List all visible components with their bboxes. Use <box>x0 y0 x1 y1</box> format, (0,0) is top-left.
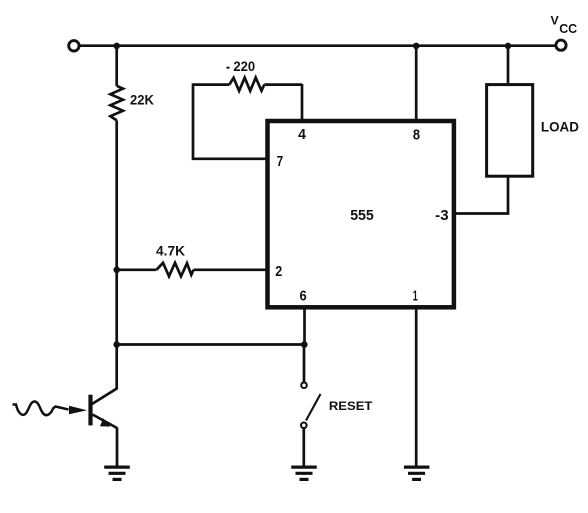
node junction top rail / 22K branch <box>113 43 120 50</box>
svg-text:220: 220 <box>233 59 255 74</box>
svg-text:1: 1 <box>413 289 418 305</box>
wire switch to ground <box>302 428 305 465</box>
switch S1 bottom contact <box>301 423 307 429</box>
svg-text:V: V <box>551 13 559 27</box>
wire pin 1 to ground <box>415 306 418 466</box>
svg-text:8: 8 <box>413 127 420 143</box>
wire bottom rail (pin 6 to transistor collector) <box>117 343 305 346</box>
wire 22K branch from top rail <box>115 46 118 86</box>
svg-text:6: 6 <box>300 289 307 305</box>
wire pin 6 stub <box>303 306 306 345</box>
wire load branch down <box>507 46 510 85</box>
wire pin 4 drop <box>301 84 304 122</box>
node junction 4.7K branch <box>113 267 120 274</box>
resistor 220 (horizontal zigzag) <box>229 78 264 91</box>
node junction bottom rail right / pin 6 <box>301 341 308 348</box>
wire emitter to ground <box>116 428 119 466</box>
wire from 22K down to 4.7K node <box>115 120 118 270</box>
wire top supply rail <box>79 44 555 47</box>
svg-text:2: 2 <box>275 264 282 280</box>
resistor 22K (vertical zigzag) <box>110 86 123 121</box>
svg-text:4: 4 <box>298 127 306 143</box>
svg-text:7: 7 <box>277 154 284 170</box>
resistor LOAD (box) <box>487 85 533 177</box>
wire collector drop <box>115 345 118 390</box>
input terminal (open circle, top-left) <box>69 41 79 51</box>
svg-text:CC: CC <box>559 21 578 36</box>
IC U1 555 box <box>268 121 454 307</box>
transistor Q1 collector lead <box>92 388 117 404</box>
svg-text:RESET: RESET <box>329 401 373 413</box>
switch S1 top contact <box>301 382 307 388</box>
ground (pin 1) <box>404 467 430 479</box>
wire 220 loop right segment <box>264 83 302 86</box>
transistor Q1 emitter lead with arrow <box>93 415 118 429</box>
svg-text:4.7K: 4.7K <box>156 243 185 258</box>
svg-text:22K: 22K <box>130 92 154 107</box>
transistor Q1 base bar <box>88 395 92 426</box>
ground (reset switch) <box>291 467 317 479</box>
light input squiggle into base <box>13 402 69 416</box>
label Vcc <box>551 13 578 36</box>
svg-text:-3: -3 <box>435 207 448 224</box>
wire 4.7K left segment <box>117 268 157 271</box>
wire reset switch drop <box>303 345 306 383</box>
svg-text:555: 555 <box>350 207 374 224</box>
tick before 220 <box>227 67 230 69</box>
terminal Vcc (open circle, top-right) <box>556 40 566 50</box>
arrow into base <box>69 406 87 414</box>
wire pin 8 from top rail <box>415 46 418 122</box>
wire from 4.7K node down to bottom-rail node <box>115 270 118 345</box>
svg-text:LOAD: LOAD <box>541 119 579 134</box>
resistor 4.7K (horizontal zigzag) <box>157 263 194 277</box>
wire load bottom to pin 3 <box>454 176 509 213</box>
ground (transistor emitter) <box>104 467 130 479</box>
wire 220 loop left + down + to pin 7 <box>193 85 266 159</box>
node junction bottom rail left <box>113 341 120 348</box>
wire 4.7K to pin 2 <box>194 268 267 271</box>
node junction top rail / pin 8 <box>413 43 420 50</box>
switch S1 arm <box>306 394 321 421</box>
node junction top rail / load branch <box>505 43 512 50</box>
